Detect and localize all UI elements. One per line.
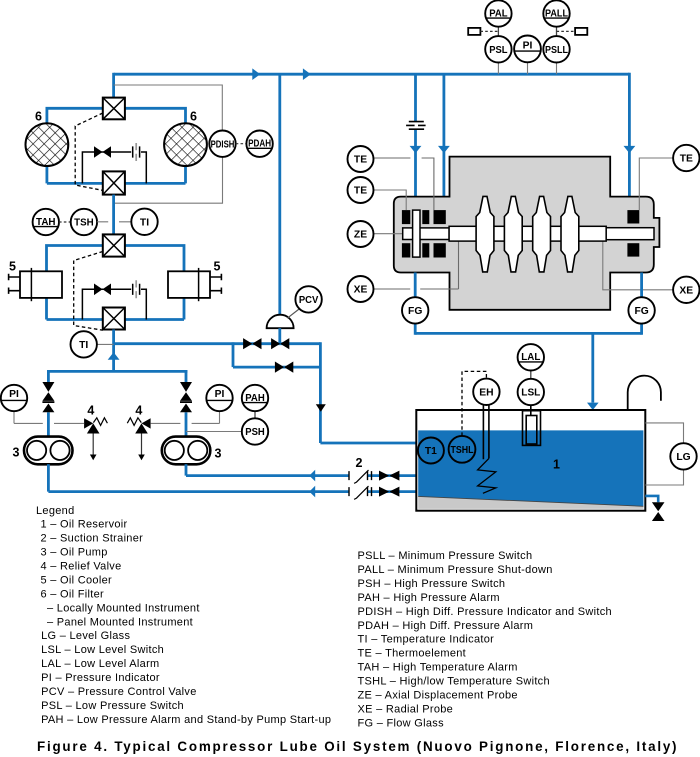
svg-text:TSHL: TSHL (451, 445, 474, 456)
svg-text:XE – Radial Probe: XE – Radial Probe (358, 704, 454, 716)
svg-text:PALL – Minimum Pressure Shut-d: PALL – Minimum Pressure Shut-down (358, 564, 553, 576)
flow arrow drop B (438, 146, 450, 153)
svg-text:EH: EH (479, 387, 493, 398)
wire drain drop into tank (591, 333, 594, 402)
drain valve (652, 502, 665, 511)
oil reservoir 1 shell (416, 410, 645, 511)
wire filter outlet right (125, 166, 186, 184)
svg-text:LSL – Low Level Switch: LSL – Low Level Switch (41, 644, 164, 656)
svg-text:2 – Suction Strainer: 2 – Suction Strainer (41, 533, 144, 545)
instrument TSH (71, 209, 97, 235)
suction strainer 2 upper (349, 470, 372, 483)
solenoid box left (468, 28, 480, 35)
svg-text:TI: TI (79, 340, 88, 351)
svg-text:5: 5 (214, 260, 221, 274)
svg-text:5: 5 (9, 260, 16, 274)
dashed link box to PSLL column (557, 30, 576, 32)
oil filter 6 left (26, 123, 69, 166)
wire drain header (415, 332, 641, 335)
wire filter section to cooler section (112, 195, 115, 235)
instrument PSLL (543, 36, 569, 62)
instrument ZE (348, 221, 374, 247)
wire PCV return to tank (320, 342, 416, 443)
crank web 2 (504, 196, 522, 272)
svg-text:3: 3 (13, 446, 20, 460)
bearing blocks left lower (402, 243, 410, 257)
instrument LSL (518, 379, 544, 405)
probe line XE right radial (603, 241, 674, 290)
dashed link TAH to TSH (59, 221, 71, 223)
instrument PSH (242, 418, 268, 444)
svg-text:PSH: PSH (245, 427, 265, 438)
svg-text:TI – Temperature Indicator: TI – Temperature Indicator (358, 634, 495, 646)
flow arrow on header 1 (252, 68, 260, 80)
wire cooler outlet left (47, 298, 103, 320)
svg-text:XE: XE (679, 285, 693, 296)
svg-text:4: 4 (135, 404, 142, 418)
svg-text:5 – Oil Cooler: 5 – Oil Cooler (41, 574, 112, 586)
oil filter 6 right (164, 123, 207, 166)
flow arrow drop A (410, 146, 422, 153)
transfer valve top of coolers (103, 234, 125, 256)
filter bypass valve (94, 146, 103, 158)
instrument LAL (518, 344, 544, 370)
flow arrow suction lower (309, 486, 315, 498)
wire header drop to compressor left B (442, 74, 445, 196)
block valve row1 b (271, 338, 280, 349)
svg-text:6: 6 (190, 110, 197, 124)
probe line TE upper-left near (374, 190, 406, 210)
wire right pump riser (185, 370, 188, 437)
instrument LG (670, 443, 696, 469)
svg-text:LG – Level Glass: LG – Level Glass (41, 630, 130, 642)
signal line PAL to PSL (497, 27, 499, 36)
svg-text:TE: TE (354, 155, 367, 166)
instrument PALL (543, 0, 569, 26)
oil pump 3 right (162, 437, 211, 465)
svg-text:TSHL – High/low Temperature Sw: TSHL – High/low Temperature Switch (358, 676, 550, 688)
tap line TSH TI (97, 221, 131, 223)
flow arrow into tank (587, 403, 599, 410)
flow arrow on return (316, 404, 326, 412)
compressor body (394, 157, 660, 310)
wire left pump riser (47, 370, 50, 437)
wire PCV valve row 1 (114, 342, 321, 345)
tap line PSH (186, 431, 242, 433)
svg-text:T1: T1 (425, 446, 437, 457)
svg-text:TE: TE (680, 154, 693, 165)
instrument PI right pump (206, 385, 232, 411)
svg-text:ZE – Axial Displacement Probe: ZE – Axial Displacement Probe (358, 690, 518, 702)
svg-text:PSH – High Pressure Switch: PSH – High Pressure Switch (358, 578, 506, 590)
flow arrow on header 2 (303, 68, 311, 80)
flow arrow up on main line (108, 352, 120, 360)
bearing blocks left upper (402, 210, 410, 224)
instrument PSL (485, 36, 511, 62)
heater element of EH (483, 405, 489, 459)
instrument XE right (673, 277, 699, 303)
wire header drop to compressor left A (414, 74, 417, 196)
svg-text:PI: PI (523, 40, 533, 51)
probe line XE left radial (374, 241, 459, 289)
svg-text:TAH – High Temperature Alarm: TAH – High Temperature Alarm (358, 662, 518, 674)
tap line TI lower (97, 343, 114, 345)
svg-text:PI: PI (9, 389, 19, 400)
crank web 3 (533, 196, 551, 272)
svg-text:2: 2 (356, 456, 363, 470)
svg-text:TE: TE (354, 186, 367, 197)
svg-text:XE: XE (354, 285, 368, 296)
wire PCV valve row 2 (233, 366, 320, 369)
wire filter inlet right branch (125, 107, 186, 124)
oil volume (418, 430, 643, 506)
svg-text:PSLL – Minimum Pressure Switch: PSLL – Minimum Pressure Switch (358, 550, 533, 562)
valve and check valve right pump (180, 382, 192, 412)
diff pressure tap lines PDISH (114, 85, 223, 203)
svg-text:– Locally Mounted Instrument: – Locally Mounted Instrument (47, 602, 200, 614)
dashed link PDISH to PDAH (236, 143, 247, 145)
wire PCV dome to valve row (278, 328, 281, 344)
svg-text:TI: TI (140, 217, 149, 228)
wire cooler outlet right (125, 298, 184, 320)
svg-text:6 – Oil Filter: 6 – Oil Filter (41, 588, 105, 600)
tap line PI left pump (14, 411, 84, 423)
svg-text:3 – Oil Pump: 3 – Oil Pump (41, 547, 108, 559)
svg-text:PSL – Low Pressure Switch: PSL – Low Pressure Switch (41, 700, 184, 712)
flow arrow suction upper (309, 470, 315, 482)
thrust collar (413, 210, 420, 257)
svg-text:LSL: LSL (521, 388, 540, 399)
svg-text:Legend: Legend (36, 505, 75, 517)
level switch chamber of LSL (530, 405, 532, 416)
PCV control valve dome (267, 315, 294, 329)
instrument PCV (295, 286, 321, 312)
instrument FG right (628, 297, 654, 323)
svg-text:PI: PI (215, 389, 225, 400)
block valve suction upper (379, 471, 389, 481)
instrument PAL (485, 0, 511, 26)
probe line TE right (639, 158, 673, 210)
oil pump 3 left (24, 437, 73, 465)
valve and check valve left pump (42, 382, 54, 412)
vent gooseneck (628, 376, 661, 410)
wire header to filter transfer valve (112, 73, 115, 98)
wire cooler inlet right branch (125, 244, 184, 271)
svg-text:TSH: TSH (74, 218, 94, 229)
wire compressor drain to FG left (414, 273, 417, 335)
cooler bypass line (82, 289, 146, 319)
svg-text:LG: LG (676, 452, 690, 463)
bearing block right upper (627, 210, 639, 223)
wire filter outlet left (47, 166, 103, 184)
crank web 4 (561, 196, 579, 272)
block valve suction lower (379, 487, 389, 497)
filter bypass orifice symbol (133, 146, 140, 157)
bearing block right lower (627, 243, 639, 256)
svg-text:3: 3 (215, 447, 222, 461)
svg-text:PCV – Pressure Control Valve: PCV – Pressure Control Valve (41, 686, 197, 698)
transfer valve bottom of coolers (103, 308, 125, 330)
signal line LAL LSL (530, 370, 532, 379)
svg-text:PAH – Low Pressure Alarm and S: PAH – Low Pressure Alarm and Stand-by Pu… (41, 714, 331, 726)
svg-text:– Panel Mounted Instrument: – Panel Mounted Instrument (47, 616, 193, 628)
instrument TI lower (71, 331, 97, 357)
instrument TE right (673, 145, 699, 171)
probe line ZE axial (374, 233, 403, 235)
svg-text:PI – Pressure Indicator: PI – Pressure Indicator (41, 672, 160, 684)
wire PCV bypass left drop (232, 342, 235, 367)
svg-text:PDAH – High Diff. Pressure Ala: PDAH – High Diff. Pressure Alarm (358, 620, 534, 632)
instrument TE left 1 (348, 146, 374, 172)
svg-text:LAL – Low Level Alarm: LAL – Low Level Alarm (41, 658, 159, 670)
probe line TE upper-left far (374, 158, 434, 210)
wire cooler inlet left branch (47, 244, 103, 271)
transfer valve top of filters (103, 98, 125, 120)
wire header drop to PCV (278, 74, 281, 315)
svg-text:1: 1 (553, 458, 560, 472)
svg-text:TE – Thermoelement: TE – Thermoelement (358, 648, 467, 660)
svg-text:PAH – High Pressure Alarm: PAH – High Pressure Alarm (358, 592, 500, 604)
wire filter inlet left branch (47, 107, 103, 124)
wire cooler section down to pump header (112, 330, 115, 372)
sludge wedge at tank bottom (418, 496, 643, 509)
svg-text:ZE: ZE (354, 230, 367, 241)
filter bypass line (82, 152, 146, 183)
wire suction line lower (left pump) (48, 464, 416, 491)
svg-text:PDISH: PDISH (211, 139, 235, 150)
svg-text:PSL: PSL (489, 45, 507, 56)
instrument FG left (402, 297, 428, 323)
drain line (645, 496, 658, 502)
tap line PI right pump (151, 411, 220, 423)
shaft left stub (403, 228, 449, 240)
svg-text:4 – Relief Valve: 4 – Relief Valve (41, 561, 122, 573)
relief valve 4 right (127, 418, 150, 460)
oil cooler 5 left (9, 268, 62, 301)
svg-text:FG: FG (408, 306, 422, 317)
tap line PSL to header (497, 63, 499, 75)
wire suction line upper (right pump) (186, 464, 416, 475)
crank web 1 (476, 196, 494, 272)
block valve row1 a (243, 338, 252, 349)
instrument PAH (242, 385, 268, 411)
instrument PDAH (246, 131, 272, 157)
signal line PAH PSH (254, 411, 256, 418)
svg-text:6: 6 (35, 110, 42, 124)
cooler bypass valve (94, 284, 103, 296)
oil cooler 5 right (168, 268, 221, 301)
instrument TAH (33, 209, 59, 235)
signal line PALL to PSLL (556, 27, 558, 36)
instrument XE left (348, 276, 374, 302)
svg-text:4: 4 (87, 404, 94, 418)
transfer valve bottom of filters (103, 171, 125, 194)
svg-text:Figure 4. Typical Compressor L: Figure 4. Typical Compressor Lube Oil Sy… (37, 739, 678, 754)
instrument PI left pump (1, 385, 27, 411)
svg-text:FG – Flow Glass: FG – Flow Glass (358, 717, 445, 729)
flow arrow drop right (624, 146, 636, 153)
svg-text:PCV: PCV (299, 295, 319, 306)
instrument T1 (418, 438, 444, 464)
svg-text:FG: FG (634, 306, 648, 317)
solenoid box right (575, 28, 587, 35)
instrument TI upper (131, 209, 157, 235)
svg-text:PSLL: PSLL (545, 45, 568, 56)
flexible joint symbol on drop A (406, 122, 426, 130)
tap line PI to header (527, 62, 529, 74)
wire pump discharge header (48, 371, 186, 372)
svg-text:PDISH – High Diff. Pressure In: PDISH – High Diff. Pressure Indicator an… (358, 606, 612, 618)
block valve row2 (275, 362, 284, 373)
wire main supply header (114, 73, 630, 76)
dashed mechanical link coolers (74, 252, 103, 331)
cooler bypass orifice symbol (133, 284, 140, 295)
instrument PDISH (209, 131, 235, 157)
main crankshaft (449, 226, 606, 241)
instrument TSHL (449, 436, 476, 463)
wire compressor drain to FG right (640, 273, 643, 335)
link line PCV (287, 309, 299, 319)
instrument TE left 2 (348, 177, 374, 203)
shaft right journal (606, 228, 654, 240)
dashed mechanical link filters (75, 113, 103, 190)
wire header drop to compressor right (628, 73, 631, 197)
instrument EH (473, 379, 499, 405)
tap line PSLL to header (556, 63, 558, 75)
svg-text:1 – Oil Reservoir: 1 – Oil Reservoir (41, 519, 128, 531)
level glass tap lines (645, 423, 683, 485)
relief valve 4 left (84, 418, 107, 460)
dashed link TSHL to EH (462, 371, 486, 436)
dashed link box to PSL column (480, 30, 498, 32)
instrument PI top (514, 36, 541, 63)
suction strainer 2 lower (349, 486, 372, 499)
